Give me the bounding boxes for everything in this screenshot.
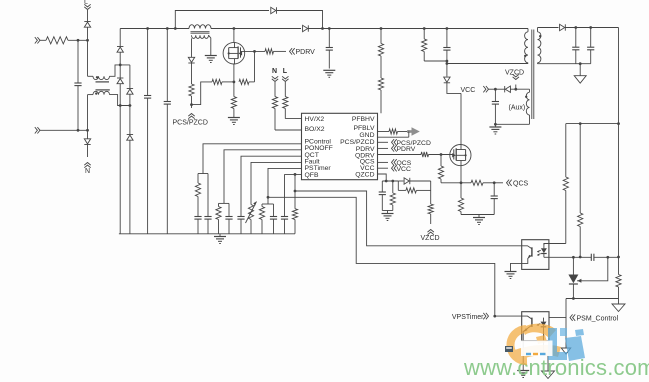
- wire U2 emitter gnd: [511, 263, 522, 271]
- input terminal line (N): [35, 127, 89, 133]
- capacitor PControl Cc1: [194, 217, 201, 234]
- diode bridge D1: [117, 47, 123, 53]
- resistor source R5: [231, 82, 236, 117]
- wire D2 down to gnd bus: [119, 84, 121, 234]
- ground output (chassis): [574, 76, 586, 84]
- watermark logo blue strokes: [548, 328, 585, 361]
- label VCC: [461, 87, 476, 94]
- resistor divider R12: [578, 124, 583, 259]
- U2 LED: [541, 244, 549, 258]
- choke core: [96, 82, 110, 90]
- wire anode line: [566, 297, 619, 300]
- node QZCD net: [382, 180, 398, 183]
- wire TL431 cathode: [572, 257, 574, 274]
- watermark logo orange strokes: [510, 324, 561, 361]
- wire TL431 ref: [577, 257, 608, 283]
- fuse F1: [46, 37, 68, 44]
- node PCS/PZCD stub (IC): [378, 139, 431, 147]
- U1 right pin labels: [340, 116, 375, 178]
- svg-text:VCC: VCC: [461, 87, 476, 94]
- wire QFB net to opto1: [295, 191, 522, 246]
- svg-text:VPSTimer: VPSTimer: [452, 314, 484, 321]
- svg-text:L: L: [283, 68, 288, 75]
- diode sense D7: [188, 57, 194, 63]
- ground QCS: [473, 218, 485, 225]
- wire secondary return: [538, 62, 591, 65]
- wire diode to aux: [511, 88, 530, 91]
- resistor PONOFF Rp: [216, 203, 221, 233]
- inductor PFC choke L1: [189, 25, 211, 29]
- watermark logo dark chip: [505, 346, 513, 352]
- capacitor QFB Cf: [281, 174, 288, 233]
- wire gate-source riser: [253, 50, 256, 82]
- resistor QFB Rf: [292, 191, 297, 234]
- wire input to choke upper: [88, 40, 94, 76]
- ground bus snubber: [323, 70, 335, 77]
- resistor QDRV Rg: [421, 152, 454, 157]
- diode QZCD Dz: [398, 178, 430, 184]
- wire secondary top: [538, 27, 559, 29]
- svg-text:N: N: [85, 168, 90, 175]
- wire VCC node: [495, 88, 504, 90]
- wire main bus left: [120, 27, 189, 30]
- ground U3 emitter: [517, 371, 529, 378]
- diode snubber D8: [444, 64, 450, 83]
- wire drain Q1: [233, 29, 235, 43]
- wire QCS gnd: [461, 215, 494, 218]
- capacitor bulk C2: [164, 29, 171, 234]
- wire output line: [565, 26, 618, 29]
- svg-text:PCS/PZCD: PCS/PZCD: [173, 120, 208, 127]
- wire L diode to input junction: [87, 27, 89, 40]
- wire fuse to junction: [68, 39, 89, 42]
- shunt regulator TL431: [568, 275, 578, 285]
- PFC choke core: [191, 32, 210, 34]
- capacitor QCT Ct: [237, 217, 244, 234]
- wire N to BO/X2: [275, 129, 302, 131]
- U3 phototransistor: [522, 316, 532, 341]
- node QCS stub (Q2): [494, 180, 528, 188]
- diode L surge (D line): [84, 22, 90, 28]
- node VZCD stub (QZCD side): [421, 230, 440, 243]
- resistor LED series R11: [563, 124, 568, 244]
- node VPSTimer stub: [452, 313, 496, 321]
- ground bus (signal): [119, 233, 295, 235]
- input terminal line (L): [35, 37, 46, 43]
- wire PControl: [203, 144, 302, 174]
- capacitor bulk C1: [144, 29, 151, 234]
- wire main bus right: [308, 27, 528, 30]
- node PDRV stub: [290, 48, 316, 56]
- ground VCC: [489, 127, 501, 134]
- resistor gate-source R4: [239, 79, 255, 84]
- wire VPSTimer to opto2: [495, 315, 522, 317]
- wire QCT: [241, 156, 302, 216]
- ground output rail (chassis): [612, 304, 625, 312]
- wire primary node: [447, 63, 528, 65]
- resistor PFBHV Rb: [378, 78, 383, 113]
- wire U3 LED anode: [549, 317, 567, 319]
- wire source Q2: [460, 166, 463, 185]
- svg-text:PDRV: PDRV: [296, 49, 316, 56]
- resistor divider lower R13: [616, 274, 621, 304]
- node L divider stub: [282, 68, 288, 82]
- wire gate Q1: [241, 50, 266, 52]
- capacitor snubber C4: [443, 29, 450, 65]
- svg-text:VZCD: VZCD: [505, 70, 524, 77]
- svg-text:HV/X2: HV/X2: [305, 116, 325, 123]
- resistor source sense R2: [212, 79, 234, 84]
- T1 polarity dots: [524, 35, 541, 57]
- wire output rail right: [617, 28, 620, 275]
- svg-text:QCS: QCS: [513, 181, 529, 188]
- potentiometer Fault RV1: [246, 202, 257, 234]
- svg-text:QFB: QFB: [305, 172, 319, 179]
- op-amp U1 controller IC box: [302, 113, 378, 179]
- node QCS stub (IC): [378, 159, 412, 167]
- diode bridge D2: [117, 78, 123, 84]
- wire QZCD: [378, 174, 387, 181]
- resistor L divider R7: [283, 82, 288, 119]
- resistor bus-to-node R10: [422, 29, 449, 63]
- svg-text:VZCD: VZCD: [421, 235, 440, 242]
- diode VCC D10: [505, 86, 511, 92]
- ground symbol bus: [214, 234, 226, 244]
- ground U3 LED (chassis): [542, 371, 555, 379]
- ground QZCD: [382, 214, 394, 221]
- transformer T1 aux winding: [526, 89, 529, 124]
- inductor common-mode choke lower winding: [93, 91, 110, 95]
- wire PSTimer: [267, 168, 302, 198]
- resistor PFBLV Rlv: [389, 129, 412, 134]
- optocoupler U2 box: [522, 240, 549, 270]
- diode bypass D5: [271, 7, 277, 13]
- wire choke lower out: [110, 95, 132, 107]
- capacitor PONOFF Cp: [225, 203, 232, 233]
- U1 left pin labels: [305, 116, 333, 179]
- transformer T1 secondary: [538, 28, 541, 64]
- capacitor CX across line: [74, 40, 81, 130]
- capacitor comp C8: [591, 254, 618, 261]
- node PDRV stub (IC): [378, 145, 416, 153]
- wire QFB junction drop: [294, 174, 297, 192]
- resistor VZCD Rz3: [428, 204, 433, 224]
- resistor PControl Rc: [195, 174, 200, 217]
- wire TL431 anode: [572, 284, 574, 299]
- transistor Q2 half-bridge MOSFET: [450, 145, 471, 166]
- capacitor PControl Cc2: [204, 174, 211, 234]
- transformer T1 primary: [525, 29, 528, 64]
- wire drain Q2: [460, 93, 462, 144]
- wire PONOFF: [224, 150, 302, 204]
- wire N stub: [87, 130, 89, 139]
- svg-text:N: N: [272, 68, 277, 75]
- wire main bus mid: [211, 27, 301, 30]
- resistor N divider R6: [272, 82, 277, 130]
- node PONOFF net: [219, 202, 230, 204]
- wire PSTimer net to opto2: [268, 197, 495, 316]
- diode N surge: [84, 139, 90, 145]
- diode output D9: [560, 24, 566, 30]
- wire choke lower to N line: [88, 95, 94, 131]
- node VCC stub (IC): [378, 165, 411, 173]
- label (Aux): [509, 105, 526, 112]
- U3 LED: [541, 318, 547, 341]
- node PCS/PZCD stub (left): [173, 105, 208, 127]
- ground anode branch (chassis): [561, 348, 571, 354]
- wire GND pin: [378, 132, 409, 138]
- optocoupler U3 box: [522, 312, 549, 341]
- wire U3 emitter gnd: [522, 341, 524, 370]
- transformer T1 core: [532, 30, 534, 120]
- wire PFBLV: [378, 131, 390, 133]
- wire source Q1: [233, 64, 236, 83]
- svg-text:BO/X2: BO/X2: [305, 126, 325, 133]
- ground U2 emitter: [505, 272, 517, 279]
- wire QDRV: [378, 154, 422, 156]
- svg-text:QZCD: QZCD: [355, 172, 374, 179]
- wire L to HV/X2: [285, 118, 301, 120]
- wire LED feed: [544, 244, 566, 246]
- capacitor output C6: [587, 28, 594, 64]
- wire L stub down: [87, 10, 89, 22]
- resistor sense R1: [189, 63, 194, 106]
- T1 aux polarity dot: [525, 96, 527, 98]
- capacitor PSTimer Ct2: [270, 204, 277, 234]
- node PSTimer net: [262, 197, 274, 204]
- wire choke upper out: [110, 64, 130, 77]
- resistor QZCD Rz1: [390, 181, 395, 211]
- svg-text:(Aux): (Aux): [509, 105, 526, 112]
- diode bridge D3: [127, 65, 133, 135]
- svg-text:VCC: VCC: [397, 166, 411, 173]
- wire output gnd stub: [579, 64, 581, 76]
- node QZCD gnd: [382, 211, 393, 214]
- wire rectifier branch 1 top: [119, 29, 121, 47]
- svg-text:PDRV: PDRV: [397, 146, 416, 153]
- resistor QCS R8: [461, 180, 496, 185]
- node PControl net: [198, 173, 208, 175]
- wire sense winding left down: [191, 38, 193, 57]
- svg-text:PSM_Control: PSM_Control: [577, 315, 619, 322]
- diode boost D6: [303, 25, 309, 31]
- U2 phototransistor: [522, 246, 532, 264]
- wire Fault: [251, 162, 302, 204]
- wire anode branch: [565, 299, 567, 349]
- capacitor QZCD Cz: [379, 181, 386, 211]
- wire sense winding right to gnd: [209, 35, 211, 55]
- node PSM_Control stub: [570, 314, 619, 322]
- node VCC stub: [483, 86, 497, 92]
- inductor common-mode choke upper winding: [93, 76, 110, 80]
- U2 LED arrows: [537, 250, 541, 256]
- watermark logo white card: [521, 341, 553, 357]
- ground sense winding: [205, 56, 217, 63]
- watermark green url text: [463, 355, 649, 380]
- resistor QZCD Rz2: [398, 181, 430, 193]
- U3 LED arrows: [536, 324, 540, 326]
- resistor PFBHV Ra: [378, 44, 383, 79]
- wire snubber to drain: [447, 83, 461, 94]
- wire QFB: [285, 173, 302, 176]
- resistor gate R3: [265, 49, 286, 54]
- wire PFBHV divider: [380, 29, 382, 44]
- svg-text:PFBHV: PFBHV: [352, 116, 375, 123]
- wire Vout tap: [566, 122, 619, 125]
- wire opto cathode line: [549, 256, 591, 259]
- resistor PSTimer Rt: [259, 204, 264, 234]
- capacitor QCS Cs: [491, 183, 498, 215]
- arrow PFB sense (bold): [407, 127, 420, 135]
- wire aux return: [495, 124, 529, 126]
- capacitor bus snubber C3: [326, 29, 333, 69]
- wire bypass diode line: [175, 11, 322, 29]
- node VZCD stub (aux): [505, 70, 524, 90]
- resistor source R9: [458, 183, 463, 215]
- capacitor VCC C7: [492, 89, 499, 126]
- inductor PFC sense winding: [192, 35, 209, 38]
- wire VZCD chain: [430, 181, 432, 204]
- transistor Q1 PFC MOSFET: [223, 42, 245, 64]
- diode bridge D4: [127, 135, 133, 234]
- node N input stub (bottom): [84, 145, 90, 176]
- node L input stub (top): [84, 0, 91, 10]
- svg-text:GND: GND: [359, 132, 374, 139]
- node N divider stub: [272, 68, 278, 82]
- ground Q1 source: [228, 118, 240, 125]
- wire U3 LED cathode: [544, 341, 549, 371]
- capacitor output C5: [572, 28, 579, 64]
- resistor gate-source Rgs2: [438, 155, 461, 183]
- wire D1 to node: [119, 52, 121, 78]
- wire sense to source resistor: [192, 82, 213, 105]
